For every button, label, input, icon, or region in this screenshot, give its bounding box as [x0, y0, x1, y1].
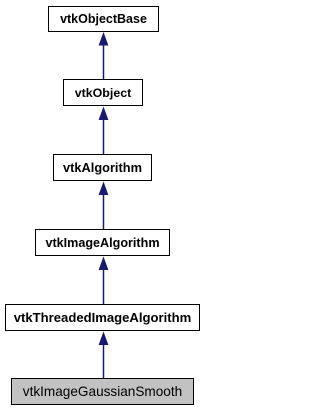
class box vtkImageAlgorithm — [35, 229, 170, 256]
class box vtkObjectBase — [48, 6, 159, 32]
inheritance arrow vtkAlgorithm -> vtkObject — [103, 119, 105, 154]
class box vtkThreadedImageAlgorithm — [5, 304, 200, 331]
class box vtkObject — [63, 79, 143, 106]
class box vtkImageGaussianSmooth (current, grey) — [11, 378, 194, 405]
class box vtkAlgorithm — [53, 154, 152, 181]
inheritance arrow vtkObject -> vtkObjectBase — [103, 44, 105, 79]
inheritance arrow vtkThreadedImageAlgorithm -> vtkImageAlgorithm — [103, 269, 105, 304]
inheritance arrow vtkImageGaussianSmooth -> vtkThreadedImageAlgorithm — [103, 344, 105, 379]
inheritance arrow vtkImageAlgorithm -> vtkAlgorithm — [103, 194, 105, 229]
